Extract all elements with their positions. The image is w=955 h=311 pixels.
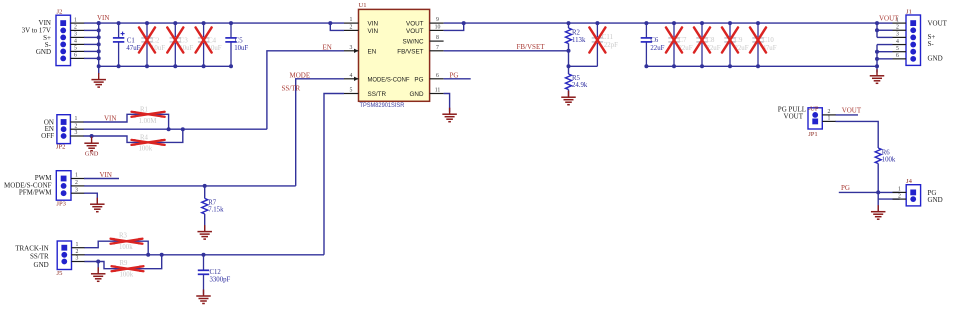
svg-text:VOUT: VOUT bbox=[879, 15, 899, 23]
svg-text:EN: EN bbox=[323, 44, 332, 52]
svg-text:3: 3 bbox=[350, 45, 353, 51]
svg-text:VOUT: VOUT bbox=[928, 20, 948, 28]
JP3 pin stubs bbox=[71, 179, 85, 194]
capacitor C7 (DNP) bbox=[668, 23, 679, 66]
svg-text:3: 3 bbox=[896, 32, 899, 38]
DNP cross over C8 bbox=[694, 28, 710, 53]
svg-text:OFF: OFF bbox=[41, 132, 54, 140]
C11 DNP labels bbox=[602, 34, 618, 49]
wire R7 top lead bbox=[204, 186, 206, 199]
svg-text:5: 5 bbox=[74, 46, 77, 52]
C4 DNP labels bbox=[208, 38, 222, 53]
svg-text:J2: J2 bbox=[57, 9, 63, 16]
wire J2 pins to bus bbox=[84, 30, 99, 58]
svg-text:R2: R2 bbox=[572, 29, 581, 36]
J2 pin stubs bbox=[71, 23, 85, 58]
capacitor C2 (DNP) bbox=[141, 23, 152, 66]
svg-text:3: 3 bbox=[75, 130, 78, 136]
svg-text:3: 3 bbox=[74, 32, 77, 38]
capacitor C5 10uF bbox=[225, 23, 236, 66]
svg-text:TPSM82901SISR: TPSM82901SISR bbox=[360, 102, 405, 109]
svg-text:R3: R3 bbox=[119, 232, 128, 239]
svg-text:GND: GND bbox=[928, 196, 943, 204]
wire J5 pin3 to R9 bbox=[85, 255, 162, 269]
ground JP3 bbox=[90, 198, 105, 212]
svg-text:VIN: VIN bbox=[368, 28, 379, 35]
wire JP1 pin2 VOUT bbox=[836, 114, 859, 116]
svg-text:100k: 100k bbox=[882, 156, 896, 163]
wire J1 GND bus bbox=[876, 45, 878, 73]
svg-text:SS/TR: SS/TR bbox=[282, 85, 301, 93]
J1 pin stubs bbox=[893, 23, 907, 59]
svg-text:JP1: JP1 bbox=[808, 131, 818, 138]
C1 labels bbox=[126, 38, 140, 53]
svg-text:C1: C1 bbox=[127, 38, 135, 45]
svg-text:22pF: 22pF bbox=[604, 42, 618, 49]
JP3 pin numbers bbox=[75, 173, 78, 194]
J2 pin numbers bbox=[74, 17, 77, 58]
JP2 pin labels bbox=[41, 118, 54, 140]
ground R7 bbox=[197, 225, 212, 239]
JP3 pin labels bbox=[4, 174, 52, 197]
svg-text:C4: C4 bbox=[208, 38, 217, 45]
svg-text:SW/NC: SW/NC bbox=[403, 39, 424, 46]
svg-text:J1: J1 bbox=[906, 8, 912, 15]
R3 DNP labels bbox=[119, 232, 133, 251]
svg-text:C5: C5 bbox=[235, 38, 244, 45]
wire J5 pin3 ground drop bbox=[97, 262, 99, 272]
svg-text:2: 2 bbox=[76, 249, 79, 255]
svg-text:22uF: 22uF bbox=[650, 45, 664, 52]
wire U1 GND pin 11 bbox=[444, 94, 450, 113]
wire FB/VSET net bbox=[444, 50, 569, 52]
capacitor C11 (DNP) bbox=[592, 23, 603, 66]
svg-text:VIN: VIN bbox=[97, 14, 109, 22]
svg-text:8: 8 bbox=[436, 35, 439, 41]
U1 left pin numbers bbox=[350, 17, 353, 93]
svg-text:R5: R5 bbox=[572, 75, 581, 82]
J4 pin stubs bbox=[893, 192, 907, 199]
capacitor C9 (DNP) bbox=[724, 23, 735, 66]
connector JP2 bbox=[57, 115, 71, 144]
wire JP3 pin1 VIN bbox=[84, 178, 119, 180]
J4 pin labels bbox=[928, 189, 943, 204]
wire PG net at U1 bbox=[444, 78, 471, 80]
JP1 pin labels bbox=[778, 105, 819, 120]
DNP cross over C3 bbox=[167, 28, 183, 53]
svg-text:GND: GND bbox=[34, 261, 49, 269]
svg-text:VIN: VIN bbox=[104, 114, 116, 122]
JP2 pin stubs bbox=[70, 122, 84, 136]
node J5 ground junction bbox=[96, 260, 100, 264]
resistor R6 100k bbox=[875, 148, 881, 164]
DNP cross over C2 bbox=[139, 28, 155, 53]
svg-text:10uF: 10uF bbox=[234, 45, 248, 52]
svg-text:6: 6 bbox=[896, 53, 899, 59]
U1 left pin stubs bbox=[344, 23, 359, 93]
wire JP2 pin3 to R4 bbox=[84, 129, 183, 142]
svg-text:1: 1 bbox=[76, 242, 79, 248]
JP1 pin numbers bbox=[828, 109, 831, 122]
svg-text:R1: R1 bbox=[140, 107, 148, 114]
wire VOUT rail bbox=[444, 22, 877, 24]
ground J5 bbox=[91, 267, 106, 281]
wire JP1 pin1 to R6 bbox=[836, 121, 879, 148]
node EN row junctions bbox=[167, 127, 185, 131]
ground JP2 bbox=[84, 137, 99, 151]
svg-text:R4: R4 bbox=[140, 135, 149, 142]
C2 DNP labels bbox=[151, 38, 165, 53]
node PG junction bbox=[876, 190, 880, 194]
wire R2 bottom to R5 bbox=[568, 44, 570, 75]
node VOUT rail junctions bbox=[462, 21, 879, 25]
wire J1 VOUT bus bbox=[876, 23, 878, 37]
J1 pin numbers bbox=[896, 17, 899, 59]
svg-text:-UP: -UP bbox=[808, 106, 819, 113]
DNP cross over C10 bbox=[750, 28, 766, 53]
svg-text:PFM/PWM: PFM/PWM bbox=[19, 189, 52, 197]
svg-text:PG: PG bbox=[841, 184, 850, 192]
wire U1 pin10 to VOUT rail bbox=[444, 23, 464, 30]
U1 right pin numbers bbox=[435, 17, 441, 93]
svg-text:1: 1 bbox=[350, 17, 353, 23]
wire PG row bbox=[839, 191, 900, 193]
svg-text:EN: EN bbox=[368, 48, 377, 55]
C5 labels bbox=[234, 38, 248, 53]
R2 labels bbox=[572, 29, 586, 44]
svg-text:2: 2 bbox=[75, 123, 78, 129]
ground C12 bbox=[196, 290, 211, 304]
svg-text:7: 7 bbox=[436, 45, 439, 51]
svg-text:4: 4 bbox=[350, 73, 353, 79]
R5 labels bbox=[572, 75, 588, 89]
resistor R1 (DNP) cross bbox=[131, 112, 166, 117]
node SS/TR row junctions bbox=[146, 253, 205, 257]
wire JP3 pin3 to ground bbox=[84, 193, 97, 203]
svg-text:5: 5 bbox=[350, 88, 353, 94]
svg-text:113k: 113k bbox=[572, 37, 586, 44]
R1 DNP labels bbox=[139, 107, 157, 125]
node output GND rail junctions bbox=[644, 64, 879, 68]
svg-text:C11: C11 bbox=[602, 34, 613, 41]
connector JP1 bbox=[808, 108, 822, 129]
wire R7 bottom lead bbox=[204, 214, 206, 231]
connector J2 bbox=[56, 15, 71, 65]
svg-text:3300pF: 3300pF bbox=[210, 277, 231, 284]
svg-text:4: 4 bbox=[74, 39, 77, 45]
capacitor C6 22uF bbox=[641, 23, 652, 66]
svg-text:C12: C12 bbox=[210, 269, 222, 276]
C9 DNP labels bbox=[735, 37, 749, 52]
R6 labels bbox=[882, 149, 896, 163]
C3 DNP labels bbox=[179, 38, 193, 53]
U1 right pin stubs bbox=[430, 23, 444, 93]
resistor R5 24.9k bbox=[566, 74, 572, 89]
capacitor C12 3300pF bbox=[198, 255, 209, 295]
resistor R7 7.15k bbox=[202, 198, 208, 214]
svg-text:C7: C7 bbox=[679, 37, 688, 44]
capacitor C1 47uF bbox=[113, 23, 124, 66]
svg-text:6: 6 bbox=[74, 53, 77, 59]
resistor R9 (DNP) cross bbox=[111, 266, 145, 271]
svg-text:PG: PG bbox=[450, 71, 459, 79]
svg-text:2: 2 bbox=[828, 109, 831, 115]
R7 labels bbox=[208, 200, 224, 214]
node FB junction bbox=[567, 49, 571, 69]
wire J2 ground stem bbox=[98, 66, 100, 74]
wire JP3 pin2 MODE row bbox=[84, 185, 296, 187]
wire J4 pin2 ground leg bbox=[878, 198, 899, 200]
wire C11 bottom to FB node bbox=[569, 65, 598, 67]
svg-text:J4: J4 bbox=[906, 178, 913, 185]
connector JP3 bbox=[56, 171, 71, 201]
svg-text:1: 1 bbox=[75, 116, 78, 122]
capacitor C8 (DNP) bbox=[696, 23, 707, 66]
svg-text:1: 1 bbox=[75, 173, 78, 179]
U1 input arrows pins 3 4 bbox=[354, 49, 359, 81]
C6 labels bbox=[650, 37, 664, 52]
wire JP2 pin2 EN row bbox=[84, 128, 267, 130]
node JP2 ground junction bbox=[90, 134, 94, 138]
svg-text:2: 2 bbox=[896, 24, 899, 30]
wire VIN to U1 pin 2 bbox=[330, 23, 344, 30]
svg-text:R6: R6 bbox=[882, 149, 891, 156]
svg-text:2: 2 bbox=[74, 25, 77, 31]
svg-text:3: 3 bbox=[75, 187, 78, 193]
svg-text:5: 5 bbox=[896, 46, 899, 52]
svg-text:U1: U1 bbox=[359, 2, 367, 9]
svg-text:100k: 100k bbox=[139, 146, 153, 153]
svg-text:C2: C2 bbox=[152, 38, 161, 45]
svg-text:1: 1 bbox=[828, 116, 831, 122]
svg-text:R9: R9 bbox=[120, 260, 129, 267]
svg-text:C9: C9 bbox=[735, 37, 744, 44]
svg-text:VOUT: VOUT bbox=[784, 113, 804, 121]
resistor R4 (DNP) cross bbox=[131, 140, 166, 145]
wire output GND rail bbox=[646, 65, 877, 67]
svg-text:24.9k: 24.9k bbox=[572, 82, 588, 89]
capacitor C3 (DNP) bbox=[170, 23, 181, 66]
svg-text:4: 4 bbox=[896, 39, 899, 45]
svg-text:1: 1 bbox=[74, 17, 77, 23]
node VIN rail junctions bbox=[97, 21, 333, 25]
svg-text:VOUT: VOUT bbox=[842, 107, 862, 115]
R4 DNP labels bbox=[139, 135, 153, 153]
svg-text:11: 11 bbox=[435, 88, 441, 94]
svg-text:100k: 100k bbox=[119, 244, 133, 251]
svg-text:100k: 100k bbox=[120, 271, 134, 278]
U1 pin names bbox=[368, 21, 424, 98]
svg-text:C8: C8 bbox=[707, 37, 716, 44]
wire VIN rail bbox=[84, 22, 344, 24]
svg-text:S-: S- bbox=[928, 40, 935, 48]
ground R5 bbox=[561, 91, 576, 105]
svg-text:6: 6 bbox=[436, 73, 439, 79]
DNP cross over C9 bbox=[722, 28, 738, 53]
svg-text:MODE: MODE bbox=[290, 71, 311, 79]
svg-text:GND: GND bbox=[36, 48, 51, 56]
svg-text:VIN: VIN bbox=[368, 21, 379, 28]
J5 pin stubs bbox=[72, 248, 86, 262]
svg-text:GND: GND bbox=[85, 150, 99, 157]
wire R6 bottom to PG row bbox=[877, 164, 879, 212]
svg-text:FB/VSET: FB/VSET bbox=[397, 48, 423, 55]
svg-text:PG: PG bbox=[414, 76, 423, 83]
C12 labels bbox=[210, 269, 231, 284]
svg-text:JP2: JP2 bbox=[56, 144, 66, 151]
svg-text:FB/VSET: FB/VSET bbox=[517, 43, 546, 51]
wire JP2 pin1 to R1 bbox=[84, 114, 169, 129]
svg-text:2: 2 bbox=[350, 25, 353, 31]
ground J1 bbox=[870, 69, 885, 83]
svg-text:VOUT: VOUT bbox=[406, 21, 424, 28]
DNP cross over C7 bbox=[666, 28, 682, 53]
svg-text:GND: GND bbox=[928, 54, 943, 62]
svg-text:10: 10 bbox=[435, 25, 441, 31]
wire input GND rail bbox=[99, 65, 231, 67]
connector J4 bbox=[906, 185, 920, 206]
C10 DNP labels bbox=[763, 37, 777, 52]
J4 pin numbers bbox=[898, 187, 901, 200]
svg-text:JP3: JP3 bbox=[56, 201, 66, 208]
wire J5 pin1 to R3 bbox=[85, 241, 149, 255]
svg-text:VIN: VIN bbox=[100, 171, 112, 179]
svg-text:VOUT: VOUT bbox=[406, 28, 424, 35]
svg-text:J5: J5 bbox=[57, 270, 64, 277]
C1 plus sign bbox=[121, 32, 125, 36]
capacitor C4 (DNP) bbox=[198, 23, 209, 66]
wire SS-TR net bbox=[324, 94, 344, 255]
svg-text:2: 2 bbox=[75, 180, 78, 186]
J2 pin labels bbox=[22, 19, 52, 56]
C8 DNP labels bbox=[707, 37, 721, 52]
J5 pin labels bbox=[15, 245, 49, 269]
svg-text:MODE/S-CONF: MODE/S-CONF bbox=[368, 76, 410, 83]
op-amp U1 TPSM82901SISR body bbox=[359, 9, 430, 101]
wire J5 pin2 SS/TR row bbox=[85, 254, 325, 256]
wire J1 pin feeds bbox=[877, 23, 893, 59]
svg-text:2: 2 bbox=[898, 193, 901, 199]
svg-text:C6: C6 bbox=[650, 37, 659, 44]
node VIN junctions on J2 bus bbox=[97, 21, 101, 68]
DNP cross over C11 bbox=[589, 28, 605, 53]
connector J5 bbox=[57, 241, 71, 270]
ground U1 bbox=[442, 108, 457, 122]
J5 pin numbers bbox=[76, 242, 79, 262]
capacitor C10 (DNP) bbox=[752, 23, 763, 66]
JP1 pin stubs bbox=[822, 115, 836, 122]
JP2 pin numbers bbox=[75, 116, 78, 136]
J1 pin labels bbox=[928, 20, 948, 63]
resistor R2 113k bbox=[566, 28, 572, 43]
wire EN net bbox=[267, 51, 344, 129]
wire J2 ground bus bbox=[98, 23, 100, 66]
svg-text:7.15k: 7.15k bbox=[208, 206, 224, 213]
resistor R3 (DNP) cross bbox=[110, 239, 144, 244]
svg-text:1.00M: 1.00M bbox=[139, 118, 157, 125]
node input GND rail junctions bbox=[117, 64, 233, 68]
svg-text:SS/TR: SS/TR bbox=[368, 91, 387, 98]
connector J1 bbox=[906, 15, 921, 65]
svg-text:GND: GND bbox=[410, 91, 424, 98]
ground J2 bbox=[91, 73, 106, 87]
DNP cross over C4 bbox=[196, 28, 212, 53]
wire R5 bottom lead bbox=[568, 90, 570, 97]
R9 DNP labels bbox=[120, 260, 134, 278]
svg-text:SS/TR: SS/TR bbox=[30, 253, 49, 261]
svg-text:C10: C10 bbox=[763, 37, 775, 44]
node J1 bus junctions bbox=[875, 28, 879, 61]
svg-text:TRACK-IN: TRACK-IN bbox=[15, 245, 48, 253]
svg-text:1: 1 bbox=[898, 187, 901, 193]
wire MODE net bbox=[296, 79, 344, 186]
C7 DNP labels bbox=[679, 37, 693, 52]
svg-text:3: 3 bbox=[76, 256, 79, 262]
ground J4 bbox=[871, 205, 886, 219]
svg-text:C3: C3 bbox=[180, 38, 189, 45]
wire R2 top lead bbox=[568, 23, 570, 28]
svg-text:9: 9 bbox=[436, 17, 439, 23]
node R7 junction bbox=[203, 184, 207, 188]
